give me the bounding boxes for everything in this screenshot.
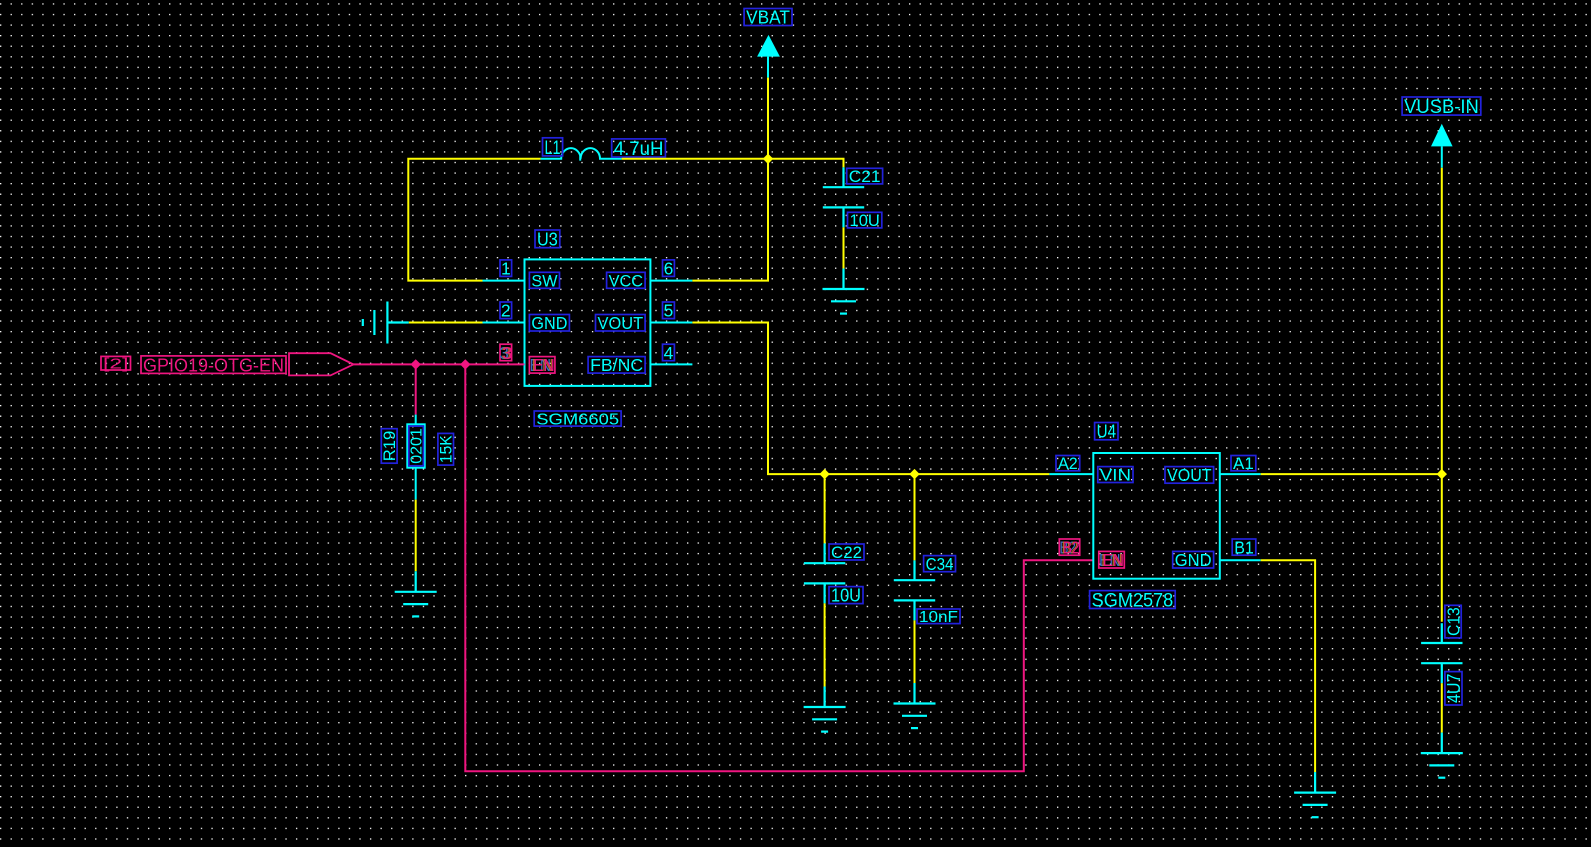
ground below C21 [823, 269, 865, 314]
pin number 4 [663, 343, 675, 363]
label L1 [543, 138, 563, 159]
pin name VOUT [1165, 465, 1214, 485]
value SGM2578 [1090, 590, 1176, 611]
wire C13 to ground [1441, 683, 1443, 732]
VUSB-IN symbol stem [1441, 146, 1443, 167]
svg-text:U4: U4 [1097, 421, 1116, 442]
svg-text:A2: A2 [1058, 455, 1078, 473]
U4 pin A1 VOUT [1220, 473, 1261, 475]
label C22 [829, 543, 864, 562]
svg-text:1: 1 [501, 258, 511, 278]
op-amp U3 body (SGM6605 boost converter) [525, 259, 651, 386]
label C13 [1443, 605, 1463, 638]
op-amp U4 body (SGM2578 load switch) [1093, 453, 1220, 579]
wire L1 to VBAT node to C21 [622, 159, 844, 168]
pin name EN [529, 355, 555, 375]
svg-text:GPIO19-OTG-EN: GPIO19-OTG-EN [143, 354, 284, 375]
junction EN branch [460, 359, 470, 369]
svg-text:A1: A1 [1233, 455, 1254, 473]
power symbol VBAT (up arrow) [757, 35, 780, 57]
wire GND pin to ground symbol [409, 322, 483, 324]
wire C34 to ground [914, 620, 916, 683]
pin name VOUT [596, 313, 646, 333]
pin name VCC [607, 271, 646, 290]
capacitor C34 [894, 560, 935, 620]
svg-text:5: 5 [664, 301, 674, 321]
svg-text:0201: 0201 [409, 428, 426, 464]
svg-text:U3: U3 [537, 229, 558, 250]
U3 pin 2 GND [483, 322, 525, 324]
svg-text:VCC: VCC [609, 271, 644, 290]
power flag label VBAT [744, 7, 792, 27]
U4 pin A2 VIN [1049, 473, 1093, 475]
ground at U3 GND pin [363, 302, 409, 344]
wire SW pin to L1 [408, 159, 540, 281]
pin number 3 [499, 343, 512, 363]
ground below R19 [395, 571, 437, 616]
svg-text:C34: C34 [926, 555, 954, 574]
wire C21 to ground [843, 227, 845, 268]
wire VBAT stem to node [767, 78, 769, 159]
label C21 [847, 168, 883, 186]
pin name GND [529, 313, 569, 333]
value 10U [848, 212, 882, 230]
svg-text:VIN: VIN [1100, 466, 1131, 485]
svg-text:10U: 10U [850, 212, 880, 230]
svg-text:2: 2 [501, 301, 511, 321]
ground below U4 GND [1294, 772, 1336, 817]
U3 pin 4 FB/NC [650, 363, 692, 365]
pin name EN (U4) [1099, 550, 1125, 570]
power flag label VUSB-IN [1402, 97, 1481, 118]
capacitor C13 [1421, 623, 1462, 683]
refdes U4 [1095, 421, 1118, 442]
capacitor C21 [823, 167, 864, 227]
svg-text:L1: L1 [545, 138, 561, 159]
pin number B2 [1059, 537, 1079, 557]
label 0201 [409, 426, 426, 466]
U3 pin 1 SW [483, 280, 525, 282]
svg-text:4.7uH: 4.7uH [614, 139, 664, 160]
wire EN net to R19 [415, 364, 417, 414]
value SGM6605 [534, 411, 621, 428]
svg-text:VUSB-IN: VUSB-IN [1404, 97, 1479, 118]
svg-text:EN: EN [533, 355, 555, 375]
VBAT symbol stem [767, 57, 769, 78]
U3 pin 5 VOUT [650, 322, 692, 324]
value 10nF [917, 609, 960, 626]
resistor R19 [407, 415, 424, 500]
svg-text:10nF: 10nF [919, 609, 958, 626]
off-page connector GPIO19-OTG-EN [289, 353, 354, 375]
label C34 [924, 555, 956, 574]
refdes R19 [380, 429, 399, 464]
svg-text:R19: R19 [380, 431, 399, 462]
refdes U3 [535, 229, 560, 250]
svg-text:GND: GND [531, 313, 567, 333]
ground below C34 [894, 683, 936, 728]
svg-text:GND: GND [1175, 550, 1212, 570]
capacitor C22 [804, 543, 845, 603]
wire node to C22 [824, 474, 826, 543]
net label GPIO19-OTG-EN [141, 354, 286, 375]
junction VBAT node [763, 154, 773, 164]
pin number 5 [663, 301, 675, 321]
junction C34 tap [909, 469, 919, 479]
power symbol VUSB-IN (up arrow) [1431, 124, 1453, 147]
svg-text:15K: 15K [438, 435, 456, 463]
ground below C13 [1421, 733, 1463, 778]
pin name FB/NC [588, 355, 645, 375]
svg-text:B1: B1 [1234, 537, 1254, 557]
junction VUSB node [1437, 469, 1447, 479]
svg-text:SGM6605: SGM6605 [536, 411, 619, 428]
page ref [2] [101, 356, 131, 372]
wire U4 VOUT to VUSB-IN [1261, 473, 1442, 475]
pin number 1 [500, 258, 512, 278]
junction EN-R19 [411, 359, 421, 369]
wire EN net to U4 EN [465, 364, 1093, 771]
pin number A1 [1231, 455, 1256, 473]
value 10U [829, 586, 863, 606]
inductor L1 [541, 148, 622, 161]
wire node to C34 [914, 474, 916, 560]
wire U3 VOUT to U4 VIN [692, 323, 1049, 475]
value 4.7uH [612, 139, 666, 160]
svg-text:4U7: 4U7 [1444, 674, 1464, 703]
svg-text:VBAT: VBAT [746, 7, 790, 27]
svg-text:4: 4 [664, 343, 674, 363]
svg-text:FB/NC: FB/NC [590, 355, 643, 375]
U3 pin 6 VCC [650, 280, 692, 282]
wire VUSB-IN vertical [1441, 168, 1443, 622]
wire R19 to ground [415, 500, 417, 572]
pin number 2 [500, 301, 512, 321]
svg-text:VOUT: VOUT [1167, 465, 1212, 485]
svg-text:6: 6 [664, 258, 674, 278]
svg-text:SGM2578: SGM2578 [1092, 590, 1174, 611]
pin name SW [529, 271, 559, 290]
ground below C22 [804, 687, 846, 732]
wire VCC to VBAT node [692, 159, 768, 281]
svg-text:10U: 10U [831, 586, 861, 606]
svg-text:[2]: [2] [103, 356, 129, 372]
svg-text:B2: B2 [1063, 537, 1079, 557]
svg-text:C22: C22 [831, 543, 862, 562]
wire EN net to U3 pin 3 [354, 363, 525, 365]
svg-text:SW: SW [531, 271, 557, 290]
U4 pin B1 GND [1220, 559, 1261, 561]
svg-text:VOUT: VOUT [598, 313, 644, 333]
svg-text:C21: C21 [849, 168, 881, 186]
wire U4 GND to ground [1261, 560, 1315, 772]
junction C22 tap [819, 469, 829, 479]
pin number A2 [1056, 455, 1080, 473]
svg-text:EN: EN [1103, 550, 1125, 570]
pin number B1 [1232, 537, 1256, 557]
svg-text:C13: C13 [1443, 607, 1463, 636]
pin number 6 [663, 258, 675, 278]
pin name GND (U4) [1173, 550, 1214, 570]
pin name VIN [1098, 466, 1133, 485]
value 4U7 [1444, 672, 1464, 705]
svg-text:3: 3 [503, 343, 513, 363]
wire C22 to ground [824, 603, 826, 686]
value 15K [438, 433, 456, 465]
